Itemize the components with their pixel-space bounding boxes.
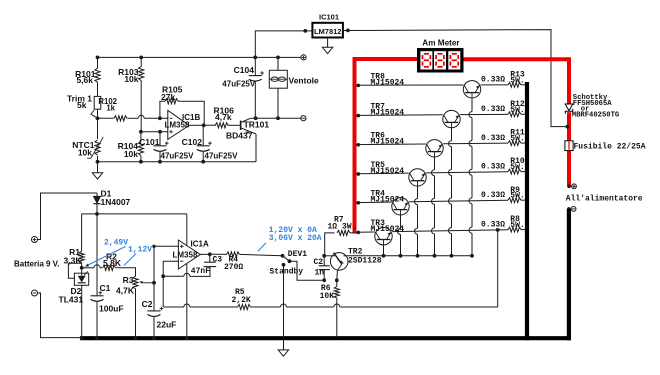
wire sense tap down: [497, 230, 499, 307]
svg-text:10k: 10k: [124, 149, 138, 159]
node DEV1 throw run: [288, 259, 292, 263]
node TR2 emitter: [335, 278, 339, 282]
svg-text:LM358: LM358: [165, 120, 190, 129]
svg-text:All'alimentatore: All'alimentatore: [566, 194, 643, 203]
wire R4 to DEV1: [240, 254, 283, 255]
resistor R1: [79, 252, 84, 263]
wire black minus bus: [567, 209, 571, 340]
node red bus row TR6: [357, 143, 361, 147]
svg-text:Batteria 9 V.: Batteria 9 V.: [14, 259, 60, 268]
svg-text:IC1A: IC1A: [191, 239, 209, 248]
TR8 emitter arrow: [476, 86, 479, 89]
wire C102 top lead: [202, 125, 204, 146]
wire bus to ground symbol: [283, 340, 285, 350]
resistor R4: [227, 252, 240, 257]
resistor R5: [238, 304, 251, 309]
svg-text:IC101: IC101: [319, 13, 339, 22]
op-amp IC1B: [168, 110, 189, 139]
svg-text:3,3K: 3,3K: [64, 256, 83, 266]
wire R105 to output: [178, 101, 204, 125]
svg-text:C1: C1: [100, 283, 111, 293]
wire R104 top lead: [140, 132, 142, 142]
svg-text:270Ω: 270Ω: [224, 263, 243, 272]
wire TR7 emitter to R12: [460, 113, 508, 115]
ground: [92, 173, 102, 179]
svg-text:1Ω 3W.: 1Ω 3W.: [328, 222, 357, 231]
node IC101 left pin: [303, 29, 307, 33]
wire TR101 emitter to rail: [255, 134, 257, 162]
TR5 emitter arrow: [422, 173, 425, 176]
wire fan top lead: [277, 57, 279, 70]
svg-text:47uF25V: 47uF25V: [222, 80, 256, 89]
svg-text:TR101: TR101: [244, 119, 270, 129]
node base rail TR3: [382, 254, 386, 258]
resistor R101: [95, 68, 100, 82]
wire R7 left: [325, 233, 335, 256]
svg-text:0.33Ω: 0.33Ω: [481, 191, 505, 200]
node inv input/feedback: [158, 116, 162, 120]
wire TR4 collector from red bus: [356, 201, 392, 204]
svg-text:R3: R3: [123, 275, 134, 285]
node rail/NTC1: [96, 160, 100, 164]
resistor R2: [103, 265, 116, 270]
wire to ground symbol: [97, 162, 99, 173]
wire R6 to bus: [336, 298, 338, 338]
svg-text:Standby: Standby: [270, 268, 304, 277]
R3 wiper: [142, 282, 154, 284]
wire C1 branch: [96, 214, 98, 296]
IC1A plus mark: [180, 245, 183, 247]
svg-text:0.33Ω: 0.33Ω: [481, 134, 505, 143]
thermistor NTC1: [95, 140, 100, 155]
node base rail TR6: [433, 254, 437, 258]
op-amp IC1A: [178, 240, 200, 269]
node sense tap: [496, 228, 500, 232]
regulator IC101 LM7812: [312, 23, 343, 38]
svg-text:0.33Ω: 0.33Ω: [481, 105, 505, 114]
capacitor C101: [154, 145, 167, 147]
wire R102 to IC1B with hop: [127, 117, 138, 119]
trimmer Trim1: [94, 96, 101, 109]
svg-text:TR2: TR2: [348, 248, 363, 257]
node C104 bottom: [254, 116, 258, 120]
wire D1 node right (V+): [97, 213, 187, 215]
wire node-NTC1: [97, 118, 99, 139]
wire TL431 to bus: [81, 285, 83, 338]
svg-text:MBRF40250TG: MBRF40250TG: [572, 111, 619, 119]
wire inv node down to sense line: [162, 276, 164, 307]
svg-text:BD437: BD437: [226, 131, 253, 141]
svg-text:5W.: 5W.: [510, 76, 524, 85]
svg-text:C2: C2: [314, 258, 324, 267]
svg-text:0.33Ω: 0.33Ω: [481, 76, 505, 85]
node TL431 bus: [80, 336, 84, 340]
wire R9 to black bus: [521, 199, 526, 201]
capacitor C3 47nF: [209, 254, 211, 262]
node base rail TR4: [399, 254, 403, 258]
resistor R7: [337, 230, 350, 235]
ground IC101: [322, 47, 332, 53]
svg-text:1N4007: 1N4007: [101, 197, 131, 207]
IC1A minus mark: [180, 260, 183, 262]
resistor R104: [138, 142, 143, 156]
node rail/R104: [139, 160, 143, 164]
wire rail to IC101: [255, 31, 312, 58]
node DEV1 throw standby: [282, 263, 286, 267]
terminal All alimentatore plus: [572, 184, 577, 189]
node minus terminal: [567, 207, 571, 211]
node plus terminal: [567, 185, 571, 189]
ground main: [278, 350, 288, 356]
wire TR7 collector from red bus: [356, 114, 443, 117]
svg-text:5,8K: 5,8K: [103, 258, 122, 268]
svg-text:100uF: 100uF: [99, 304, 124, 314]
svg-text:5,6k: 5,6k: [76, 75, 93, 85]
node IC101 feed tap: [565, 125, 569, 129]
node R3 bus: [134, 336, 138, 340]
IC1B minus mark: [170, 117, 173, 119]
resistor R103: [139, 67, 144, 81]
wire R3 to bus: [135, 289, 137, 338]
wire analog ground rail: [98, 161, 257, 163]
wire IC1A V- to bus: [186, 264, 188, 338]
wire TL431 ref loop: [68, 263, 81, 278]
wire R10 to black bus: [521, 171, 526, 173]
resistor R105: [165, 99, 178, 104]
capacitor C2 1nF: [323, 256, 325, 266]
svg-text:C102: C102: [182, 137, 203, 147]
svg-text:5W.: 5W.: [510, 163, 524, 172]
wire +12V rail: [98, 56, 301, 58]
svg-text:Am Meter: Am Meter: [422, 39, 460, 48]
transistor TR6 MJ15024: [426, 140, 443, 157]
wire standby contact to ground bus: [283, 265, 285, 338]
node C2 bus: [152, 336, 156, 340]
svg-text:1k: 1k: [106, 104, 115, 113]
wire C3 return with hop: [184, 273, 190, 276]
wire D1 node left: [82, 213, 97, 215]
wire battery plus to D1: [38, 193, 98, 240]
wire red bus lower: [567, 151, 571, 186]
wire TR2 emitter to R6: [336, 280, 338, 286]
svg-text:5k: 5k: [77, 100, 87, 110]
wire setpoint node vertical: [153, 246, 155, 311]
terminal fan minus: [301, 116, 306, 121]
node TR2 base: [322, 254, 326, 258]
wire feedback loop: [160, 101, 165, 118]
TR2 bar: [334, 253, 342, 265]
svg-text:27k: 27k: [161, 92, 175, 102]
node noninv corner: [152, 245, 155, 248]
terminal Batteria minus: [32, 290, 38, 296]
node C2 bottom: [322, 278, 326, 282]
resistor R9 0.33ohm 5W: [508, 198, 521, 203]
node base rail TR7: [450, 254, 454, 258]
svg-text:MJ15024: MJ15024: [371, 108, 405, 117]
resistor R13 0.33ohm 5W: [508, 82, 521, 87]
svg-text:C2: C2: [142, 299, 153, 309]
node rail/fan: [276, 56, 280, 60]
svg-text:22uF: 22uF: [157, 319, 177, 329]
wire TR7 base stem: [451, 128, 453, 141]
svg-text:MJ15024: MJ15024: [371, 138, 405, 147]
svg-text:Fusibile 22/25A: Fusibile 22/25A: [574, 143, 646, 152]
wire fan bottom lead: [277, 88, 279, 118]
wire IC1A noninverting input: [154, 245, 178, 247]
svg-text:LM7812: LM7812: [314, 27, 342, 36]
svg-text:10k: 10k: [78, 148, 92, 158]
wire TR2 base: [324, 255, 330, 257]
switch DEV1 lever: [283, 256, 290, 261]
node V- bus: [185, 336, 189, 340]
svg-text:3,06V x 20A: 3,06V x 20A: [269, 234, 322, 243]
svg-text:47uF25V: 47uF25V: [161, 152, 195, 161]
shunt reference D2 TL431: [81, 268, 83, 276]
svg-text:4,7K: 4,7K: [116, 286, 135, 296]
svg-text:0.33Ω: 0.33Ω: [481, 220, 505, 229]
node base rail TR8: [470, 254, 474, 258]
wire to R1: [81, 214, 83, 252]
wire red meter right stub: [464, 57, 570, 61]
node D1 cathode: [95, 212, 99, 216]
svg-text:1,12V: 1,12V: [128, 245, 152, 254]
wire TR6 emitter to R11: [443, 142, 508, 145]
NTC1 diagonal mark: [91, 137, 103, 158]
wire TR8 base stem: [471, 98, 473, 112]
svg-text:MJ15024: MJ15024: [371, 167, 405, 176]
node rail/R101: [96, 56, 100, 60]
node rail/IC101: [253, 56, 257, 60]
wire TR3 emitter to R8: [392, 230, 508, 232]
svg-text:4,7k: 4,7k: [215, 112, 232, 122]
node red bus row TR5: [357, 172, 361, 176]
svg-text:5W.: 5W.: [510, 192, 524, 201]
diode Schottky FFSH5065A: [565, 104, 573, 111]
svg-text:5W.: 5W.: [510, 135, 524, 144]
TR3 emitter arrow: [388, 232, 391, 235]
wire black emitter bus: [525, 82, 529, 340]
terminal Batteria plus: [32, 237, 38, 243]
node rail/C102: [201, 160, 205, 164]
resistor R11 0.33ohm 5W: [508, 141, 521, 146]
wire R13 to black bus: [521, 84, 526, 86]
wire R8 to black bus: [521, 229, 526, 231]
wire red left bus: [353, 57, 357, 234]
wire battery minus to bus: [38, 293, 83, 338]
fan Ventole: [269, 70, 287, 88]
wire TR5 base stem: [417, 186, 419, 199]
wire C104 top lead: [254, 57, 256, 75]
resistor R102: [114, 116, 127, 121]
svg-text:DEV1: DEV1: [288, 250, 307, 259]
wire NTC node to IC1B inverting input: [98, 117, 114, 119]
transistor TR5 MJ15024: [409, 169, 426, 186]
wire TR4 base stem: [400, 215, 402, 229]
wire IC1B output: [189, 124, 216, 126]
node R3 wiper tap: [152, 281, 156, 285]
capacitor C1 100uF: [91, 295, 104, 297]
terminal fan plus: [301, 55, 306, 60]
svg-text:5W.: 5W.: [510, 221, 524, 230]
resistor R8 0.33ohm 5W: [508, 227, 521, 232]
svg-text:C104: C104: [234, 65, 255, 75]
svg-text:2,49V: 2,49V: [104, 238, 128, 247]
wire TR6 collector from red bus: [356, 143, 426, 146]
svg-text:C101: C101: [139, 137, 160, 147]
wire IC1A output: [200, 253, 216, 255]
TR7 emitter arrow: [456, 115, 459, 118]
node rail/C101: [158, 160, 162, 164]
wire R7 to red bus: [350, 232, 356, 234]
node red bus row TR7: [357, 114, 361, 118]
node TL431 ref: [80, 266, 84, 270]
transistor TR3 MJ15024: [375, 228, 392, 245]
wire noninverting input: [141, 131, 168, 133]
wire TR5 emitter to R10: [426, 172, 508, 173]
node output/C3: [208, 252, 212, 256]
wire R103 top lead: [140, 57, 142, 66]
node DEV1 pole: [281, 254, 285, 258]
wire TR4 emitter to R9: [409, 200, 508, 202]
svg-text:47nF: 47nF: [191, 267, 210, 276]
resistor R12 0.33ohm 5W: [508, 112, 521, 117]
terminal All alimentatore minus: [571, 207, 576, 212]
wire NTC1-ground rail: [97, 156, 99, 162]
wire R106 to TR101 base: [228, 124, 241, 126]
node fan bottom: [276, 116, 280, 120]
node output/C102/R105: [202, 123, 206, 127]
wire common base rail: [348, 255, 472, 257]
wire TR3 base stem: [383, 245, 385, 256]
capacitor C104: [249, 75, 262, 77]
svg-text:2,2K: 2,2K: [232, 296, 251, 305]
node rail/R103: [139, 56, 143, 60]
meter digits 888: [424, 53, 429, 55]
svg-text:TL431: TL431: [59, 294, 84, 304]
TR2 emitter arrow: [340, 261, 343, 264]
capacitor C102: [197, 145, 210, 147]
resistor R3 potentiometer: [133, 276, 138, 289]
transistor TR101 BD437: [240, 121, 242, 130]
wire TR2 collector: [344, 255, 349, 257]
ammeter Am Meter: [417, 48, 464, 73]
node red bus row TR4: [357, 201, 361, 205]
node R103/R104: [139, 130, 143, 134]
wire IC1A inverting input loop: [163, 261, 178, 276]
wire TR6 base stem: [434, 157, 436, 170]
node IC101 right pin: [346, 29, 350, 33]
node C1 bus: [95, 336, 99, 340]
wire red meter left stub: [357, 57, 418, 61]
wire TR3 collector from red bus: [356, 231, 375, 233]
svg-text:MJ15024: MJ15024: [371, 196, 405, 205]
svg-text:0.33Ω: 0.33Ω: [481, 162, 505, 171]
node red bus row TR3: [357, 231, 361, 235]
svg-text:1n: 1n: [315, 268, 325, 277]
TR6 emitter arrow: [439, 144, 442, 147]
TR101 emitter arrow: [246, 131, 249, 134]
diode D1 1N4007: [96, 193, 98, 196]
wire TR8 collector from red bus: [356, 84, 463, 86]
svg-text:2SD1128: 2SD1128: [348, 257, 382, 266]
capacitor C2 22uF: [148, 310, 161, 312]
wire fan minus line: [251, 117, 301, 119]
wire sense line: [163, 306, 184, 308]
node inv/C3/R5: [161, 274, 165, 278]
resistor R6: [334, 287, 339, 299]
transistor TR7 MJ15024: [443, 110, 460, 127]
transistor TR4 MJ15024: [392, 198, 409, 215]
wire ref node to R2: [82, 267, 94, 269]
wire R2 to R3: [116, 268, 136, 277]
wire Trim1-node: [97, 109, 99, 118]
TR4 emitter arrow: [405, 202, 408, 205]
node base rail TR5: [416, 254, 420, 258]
svg-text:10K: 10K: [320, 292, 335, 301]
svg-text:C3: C3: [213, 256, 223, 265]
wire IC101 ground lead: [327, 38, 329, 48]
node C101 tap: [158, 130, 162, 134]
wire TR5 collector from red bus: [356, 172, 409, 175]
wire TR8 emitter to R13: [481, 84, 508, 86]
wire R101 top lead: [97, 57, 99, 68]
node Trim1/NTC1/R102: [96, 116, 100, 120]
wire R11 to black bus: [521, 142, 526, 144]
fuse Fusibile 22/25A: [568, 141, 570, 151]
svg-text:LM358: LM358: [173, 250, 198, 259]
wire red bus middle: [567, 112, 571, 141]
node red bus row TR8: [357, 84, 361, 88]
wire V+ to IC1A: [186, 214, 188, 246]
wire bottom ground bus: [80, 336, 571, 340]
svg-text:MJ15024: MJ15024: [371, 78, 405, 87]
wire C101 top lead: [159, 132, 161, 146]
svg-text:MJ15024: MJ15024: [371, 225, 405, 234]
svg-text:FFSH5065A: FFSH5065A: [573, 100, 613, 108]
svg-text:10k: 10k: [124, 74, 138, 84]
svg-text:47uF25V: 47uF25V: [205, 152, 239, 161]
wire TR2 emitter down: [336, 270, 339, 280]
wire R103-noninv node: [140, 81, 142, 132]
svg-text:Ventole: Ventole: [289, 75, 320, 85]
wire DEV1 to C2 bottom: [290, 261, 325, 280]
transistor TR8 MJ15024: [463, 81, 480, 98]
wire R101-Trim1: [97, 82, 99, 96]
wire R12 to black bus: [521, 113, 526, 115]
IC1B plus mark: [169, 131, 172, 133]
resistor R106: [215, 123, 228, 128]
resistor R10 0.33ohm 5W: [508, 169, 521, 174]
wire red right bus upper: [567, 57, 571, 104]
svg-text:5W.: 5W.: [510, 106, 524, 115]
